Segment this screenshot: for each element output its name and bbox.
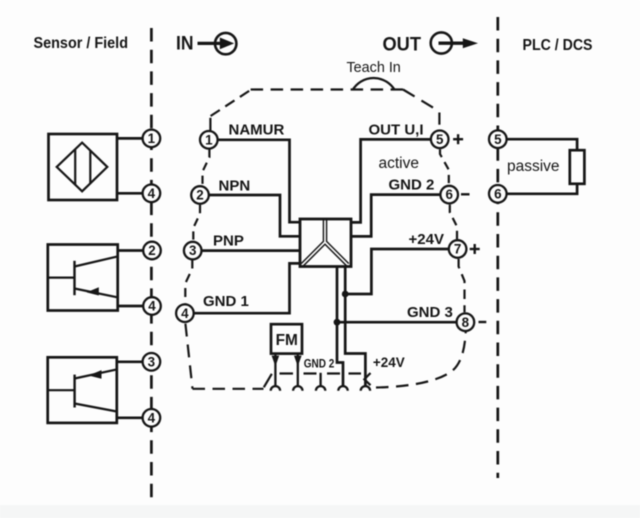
bottom gray strip — [0, 505, 640, 518]
svg-text:GND 2: GND 2 — [389, 177, 435, 194]
wire +24V output — [345, 249, 449, 294]
wire vertical A from U1 to pin4 (GND) — [337, 267, 343, 387]
FM arrow to pin1 — [272, 354, 280, 386]
PLC/DCS separator dashed line — [496, 17, 499, 478]
svg-text:1: 1 — [148, 131, 156, 146]
device enclosure dashed outline top — [251, 90, 440, 125]
label active — [379, 155, 420, 172]
svg-text:7: 7 — [454, 242, 461, 257]
label NAMUR — [229, 122, 285, 139]
wire NPN input — [209, 195, 300, 236]
svg-text:4: 4 — [148, 410, 156, 425]
svg-text:+24V: +24V — [409, 231, 444, 248]
svg-text:GND 1: GND 1 — [203, 293, 249, 310]
label GND 1 — [203, 293, 249, 310]
PLC terminal 6 — [489, 185, 507, 203]
svg-text:IN: IN — [176, 33, 194, 55]
svg-text:active: active — [379, 155, 420, 172]
wire B1 to terminal 4 — [117, 192, 143, 195]
svg-text:2: 2 — [196, 188, 203, 203]
minus sign terminal 6 — [461, 193, 470, 195]
svg-text:5: 5 — [494, 132, 502, 147]
svg-text:OUT: OUT — [383, 34, 422, 56]
sensor/field separator dashed line — [150, 28, 153, 498]
svg-text:+24V: +24V — [373, 355, 405, 370]
minus dash terminal 8 — [479, 321, 487, 323]
plug pin 1 contact — [271, 386, 280, 391]
sensor B3 transistor symbol — [48, 369, 117, 411]
wire B2 to terminal 4 — [118, 305, 144, 308]
device terminal 2 — [191, 186, 209, 204]
device terminal 6 — [440, 186, 458, 204]
wire PNP input — [201, 249, 300, 252]
wire GND 1 input — [194, 263, 300, 313]
label passive — [507, 158, 560, 175]
svg-text:3: 3 — [148, 354, 155, 369]
label PNP — [213, 233, 244, 250]
svg-text:Teach In: Teach In — [347, 60, 401, 76]
label PLC / DCS — [523, 37, 593, 54]
plus sign terminal 5 — [453, 134, 463, 144]
junction dot +24V — [342, 291, 349, 298]
junction dot GND 3 — [334, 319, 341, 326]
isolator amplifier U1 internal Y divider — [301, 219, 349, 266]
label +24V (plug) — [373, 355, 405, 370]
svg-text:GND 3: GND 3 — [407, 304, 453, 321]
svg-text:GND 2: GND 2 — [304, 357, 335, 371]
plug pin 3 contact — [316, 386, 325, 391]
device terminal 7 — [449, 240, 467, 258]
svg-text:8: 8 — [462, 315, 470, 330]
FM function block box — [271, 324, 302, 353]
field terminal 2 — [143, 242, 161, 260]
device enclosure dashed outline right side — [440, 149, 465, 312]
device enclosure dashed outline bottom — [193, 332, 466, 389]
plug pin 3 stub — [319, 373, 321, 387]
wire vertical B from U1 to pin5 (+24V) — [345, 267, 365, 387]
label Teach In — [347, 60, 401, 76]
plus sign terminal 7 — [470, 244, 480, 254]
svg-text:PNP: PNP — [213, 233, 244, 250]
wire OUT U,I output — [351, 139, 431, 222]
sensor B2 transistor symbol — [48, 257, 118, 298]
svg-text:OUT U,I: OUT U,I — [369, 122, 424, 139]
label GND 2 — [389, 177, 435, 194]
isolator amplifier U1 box — [300, 219, 351, 267]
svg-text:3: 3 — [189, 243, 196, 258]
device enclosure dashed outline left side — [185, 90, 250, 389]
FM arrow to pin2 — [294, 354, 302, 386]
plug pin 5 contact — [361, 386, 370, 391]
label OUT — [383, 34, 422, 56]
device terminal 8 — [457, 313, 475, 331]
svg-text:NAMUR: NAMUR — [229, 122, 285, 139]
sensor B1 diamond symbol — [57, 143, 108, 192]
device terminal 1 — [200, 131, 218, 149]
device terminal 4 — [176, 304, 194, 322]
wire NAMUR input — [217, 140, 300, 222]
svg-text:4: 4 — [181, 306, 189, 321]
PLC terminal 5 — [489, 130, 507, 148]
wire B3 to terminal 4 — [117, 416, 143, 419]
label +24V — [409, 231, 444, 248]
svg-text:FM: FM — [276, 332, 298, 349]
label GND 3 — [407, 304, 453, 321]
label OUT U,I — [369, 122, 424, 139]
label IN — [176, 33, 194, 55]
svg-text:NPN: NPN — [219, 178, 251, 195]
label Sensor / Field — [34, 35, 129, 52]
svg-text:6: 6 — [494, 186, 501, 201]
icon IN arrow-into-circle — [198, 33, 237, 54]
plug pin 2 contact — [293, 386, 302, 391]
device terminal 3 — [184, 242, 202, 260]
svg-text:5: 5 — [436, 132, 444, 147]
sensor B3 PNP switch box — [48, 357, 117, 423]
resistor passive load — [570, 150, 585, 184]
svg-text:4: 4 — [148, 186, 156, 201]
label GND 2 (plug) — [304, 357, 335, 371]
field terminal 4c — [143, 409, 161, 427]
field terminal 4a — [143, 185, 161, 203]
sensor B1 proximity switch box — [49, 134, 118, 200]
icon OUT arrow-out-of-circle — [431, 32, 478, 53]
svg-text:passive: passive — [507, 158, 560, 175]
wire GND 2 output — [351, 195, 441, 237]
sensor B2 NPN switch box — [48, 245, 118, 311]
svg-text:2: 2 — [148, 243, 155, 258]
wire B1 to terminal 1 — [117, 137, 143, 140]
svg-text:1: 1 — [205, 132, 213, 147]
svg-text:Sensor / Field: Sensor / Field — [34, 35, 129, 52]
svg-text:PLC / DCS: PLC / DCS — [523, 37, 593, 54]
wire B2 to terminal 2 — [118, 249, 144, 252]
wire PLC load loop — [507, 139, 577, 194]
wire B3 to terminal 3 — [117, 360, 143, 363]
device terminal 5 — [431, 131, 449, 149]
field terminal 1 — [143, 130, 161, 148]
svg-text:4: 4 — [148, 299, 156, 314]
field terminal 4b — [143, 297, 161, 315]
Teach In button arc — [353, 78, 395, 90]
svg-text:6: 6 — [445, 187, 452, 202]
wire GND 3 output — [337, 321, 457, 324]
field terminal 3 — [143, 353, 161, 371]
label NPN — [219, 178, 251, 195]
plug pin 4 contact — [338, 386, 347, 391]
